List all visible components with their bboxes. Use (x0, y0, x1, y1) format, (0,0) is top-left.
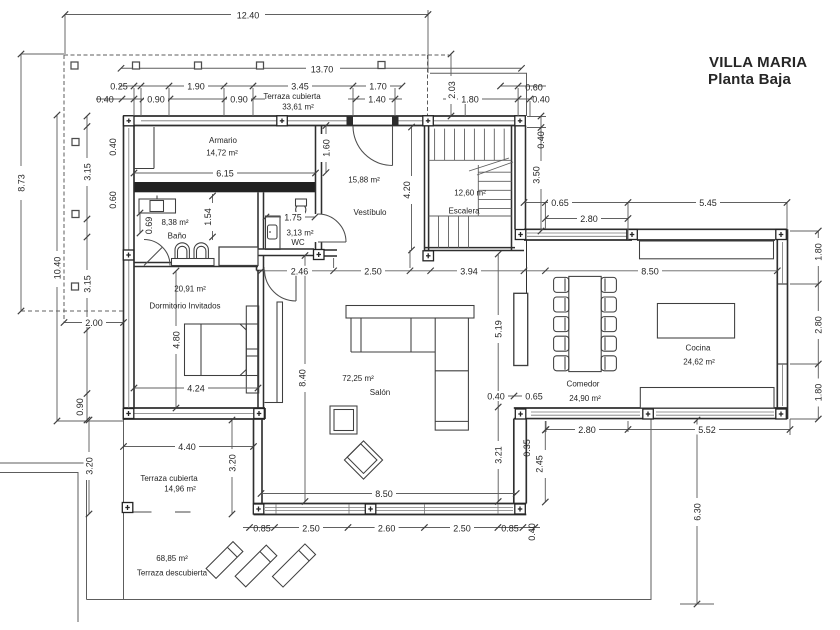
left exterior wall band (123, 116, 125, 420)
dim 5.19/3.21 vertical (497, 254, 499, 502)
salon bottom wall band (254, 503, 527, 505)
bano shower tray (219, 247, 258, 266)
dim text 0.65 stub (522, 391, 546, 402)
pillar squares on left dashed boundary (71, 62, 385, 291)
dim text 2.46 (287, 266, 312, 277)
svg-text:33,61 m²: 33,61 m² (282, 103, 314, 112)
svg-text:15,88 m²: 15,88 m² (348, 176, 380, 185)
svg-text:0.85: 0.85 (253, 524, 271, 534)
dim text 12.40 (231, 9, 265, 21)
dim text 4.24 (184, 383, 208, 394)
svg-text:1.70: 1.70 (369, 82, 387, 92)
sun lounger 1 (206, 542, 243, 579)
dim text 1.70 (366, 81, 390, 92)
dim 0.40-3.50 right of stairs (540, 116, 542, 231)
svg-text:3.21: 3.21 (494, 446, 504, 464)
svg-text:Terraza cubierta: Terraza cubierta (140, 474, 198, 483)
column terraza cubierta (122, 503, 133, 513)
svg-text:1.75: 1.75 (284, 213, 302, 223)
stair treads upper flight (429, 129, 513, 248)
dim 1.75 wc (266, 216, 315, 218)
svg-text:0.65: 0.65 (525, 392, 543, 402)
svg-text:24,62 m²: 24,62 m² (683, 358, 715, 367)
top dim row 2 (96, 98, 265, 100)
column wing top-mid (627, 230, 638, 240)
bano toilet 2 (194, 243, 208, 259)
svg-text:0.90: 0.90 (230, 95, 248, 105)
pillar (257, 62, 264, 69)
dashed roof boundary right of entry (427, 55, 429, 116)
terraza cubierta open edge marks (133, 511, 191, 513)
svg-text:12,60 m²: 12,60 m² (454, 189, 486, 198)
dim text 10.40 (52, 251, 63, 287)
roof edge line with pillars (13.70 line) (121, 67, 522, 69)
dim text 3.15 upper (81, 158, 93, 186)
bano toilet 1 (175, 243, 189, 259)
svg-text:68,85 m²: 68,85 m² (156, 554, 188, 563)
dim 10.40 line (56, 115, 58, 421)
dim 4.80 dorm (175, 271, 177, 408)
dim text 0.90 b (227, 94, 251, 105)
column salon bottom-left (253, 504, 263, 514)
svg-text:VILLA MARIA: VILLA MARIA (709, 54, 807, 71)
svg-text:20,91 m²: 20,91 m² (174, 285, 206, 294)
dim text 2.60 (375, 523, 399, 534)
wing right wall (776, 240, 778, 408)
wall bano/wc divider (257, 192, 259, 249)
comedor wall stub down to salon (513, 419, 515, 504)
svg-text:Planta Baja: Planta Baja (708, 71, 792, 88)
dim text 1.80 top (458, 94, 482, 105)
extension lines top (133, 88, 135, 116)
svg-text:1.90: 1.90 (187, 82, 205, 92)
dim 0.35/2.45 (544, 421, 546, 502)
svg-text:8.40: 8.40 (298, 369, 308, 387)
pillar (133, 62, 140, 69)
dim 0.65 / 5.45 line (524, 202, 787, 204)
svg-text:2.80: 2.80 (580, 214, 598, 224)
svg-text:8.73: 8.73 (17, 174, 27, 192)
svg-text:3.15: 3.15 (83, 275, 93, 293)
stair landing line (429, 159, 512, 161)
dim text 6.15 (213, 168, 237, 179)
long dim line y=270.8 (2.46/2.50/3.94/8.50) (259, 270, 777, 272)
dim text 8.50 wing (638, 266, 662, 277)
stair lower flight treads (429, 215, 479, 217)
wc toilet (296, 199, 307, 214)
dim text 4.80 (171, 326, 182, 354)
dim row bottom salon 0.85/2.50/2.60/2.50/0.85/0.40 (243, 527, 540, 529)
dim 2.00 line (64, 322, 124, 324)
svg-text:8,38 m²: 8,38 m² (161, 218, 188, 227)
dim text 3.15 lower (81, 270, 93, 298)
svg-text:14,96 m²: 14,96 m² (164, 485, 196, 494)
svg-text:13.70: 13.70 (311, 65, 334, 75)
dim 6.30 (696, 420, 698, 604)
wing bottom wall window mid-lines (531, 411, 640, 413)
dim 0.69 bano (139, 213, 141, 233)
dim 12.40 line (65, 14, 428, 16)
dim text 1.60 (321, 134, 332, 162)
svg-text:5.52: 5.52 (698, 425, 716, 435)
dim text 2.45 (535, 450, 548, 478)
dormitorio bottom wall band (124, 407, 266, 409)
wall stub left of dormitorio door (256, 249, 258, 271)
dim text 3.21 (493, 441, 504, 469)
dim 2.80 line (545, 218, 628, 220)
svg-text:0.85: 0.85 (501, 524, 519, 534)
terraza descubierta bottom edge (87, 419, 652, 600)
dim text 2.00 (82, 317, 106, 328)
svg-text:Terraza cubierta: Terraza cubierta (263, 92, 321, 101)
dim text 4.40 (175, 442, 199, 453)
dim 1.54 bano (212, 194, 214, 240)
dim 6.15 armario (134, 172, 316, 174)
svg-text:0.35: 0.35 (522, 439, 532, 457)
svg-text:0.40: 0.40 (536, 131, 546, 149)
sun lounger 2 (235, 545, 277, 587)
entry door jambs (347, 116, 354, 126)
dim text 2.50 vestibule (361, 266, 385, 277)
svg-text:WC: WC (291, 238, 305, 247)
svg-text:5.19: 5.19 (494, 320, 504, 338)
column cocina bottom-left (643, 409, 654, 419)
svg-text:10.40: 10.40 (53, 257, 63, 280)
svg-text:0.65: 0.65 (551, 198, 569, 208)
dim text 3.50 (531, 161, 542, 189)
pillar (378, 62, 385, 69)
dim text 1.75 (281, 212, 305, 223)
site boundary inner line bottom-left (0, 463, 87, 600)
stair room right wall (511, 126, 513, 251)
dashed plot boundary left (63, 55, 65, 322)
stair room left wall (424, 126, 426, 251)
dining chairs left (554, 277, 569, 370)
dim 4.20 stairs (411, 127, 413, 250)
dim 8.50 salon (261, 493, 516, 495)
dim text 6.30 (692, 498, 703, 526)
dim text 13.70 (306, 63, 340, 75)
column top wall 4 (515, 116, 526, 126)
svg-text:2.50: 2.50 (364, 266, 382, 276)
pillar (72, 211, 79, 218)
bano door arc (144, 240, 170, 266)
dormitorio right wall (257, 271, 259, 409)
dim text 1.80 right upper (813, 238, 824, 266)
dim text 2.80 wing bottom (575, 425, 599, 436)
armario closet partition (134, 127, 154, 169)
dim 2.80/5.52 bottom of wing (546, 429, 790, 431)
wc bottom wall band (258, 248, 314, 250)
dim text 0.40 stub (484, 391, 508, 402)
dim 3.20 terraza left (88, 420, 90, 514)
window mid-lines dorm bottom wall (134, 413, 254, 415)
extension lines near vestibule opening (409, 250, 411, 268)
svg-text:2.80: 2.80 (814, 316, 824, 334)
dim text 5.45 (696, 198, 720, 209)
left window dims line (86, 116, 88, 420)
svg-text:4.24: 4.24 (187, 384, 205, 394)
pillar (195, 62, 202, 69)
svg-text:2.50: 2.50 (453, 524, 471, 534)
top exterior wall band (124, 115, 526, 117)
bookshelf on salon side of dorm wall (265, 302, 283, 403)
dormitorio door arc (265, 270, 297, 302)
dining table (569, 276, 601, 371)
site boundary outer line bottom-left (0, 473, 78, 623)
kitchen bottom counter (640, 388, 774, 409)
wc door arc (318, 214, 346, 242)
stair diagonal break (469, 158, 509, 171)
svg-text:0.40: 0.40 (96, 95, 114, 105)
wall armario/vestibulo (134, 126, 337, 409)
column salon bottom-right (515, 504, 526, 514)
svg-text:0.90: 0.90 (75, 398, 85, 416)
svg-text:1.60: 1.60 (322, 139, 332, 157)
svg-text:Vestíbulo: Vestíbulo (354, 208, 387, 217)
svg-text:2.00: 2.00 (85, 318, 103, 328)
dim text 4.20 (401, 176, 412, 204)
svg-text:24,90 m²: 24,90 m² (569, 394, 601, 403)
vestibule/comedor divider line (526, 240, 528, 293)
armchair (330, 406, 357, 434)
dimension ticks (302, 252, 308, 258)
svg-text:1.54: 1.54 (203, 208, 213, 226)
column dorm bottom-right (254, 409, 264, 419)
dashed plot boundary top (64, 54, 449, 56)
svg-text:2.80: 2.80 (578, 425, 596, 435)
svg-text:2.50: 2.50 (302, 524, 320, 534)
svg-text:0.90: 0.90 (147, 95, 165, 105)
dim text 1.90 (184, 81, 208, 92)
svg-text:5.45: 5.45 (699, 198, 717, 208)
dim text 3.20 left (84, 452, 95, 480)
bano vanity shelf (172, 259, 215, 266)
right wall window cross ticks (777, 284, 787, 364)
svg-text:Salón: Salón (370, 388, 390, 397)
svg-text:0.25: 0.25 (110, 82, 128, 92)
wing bottom wall band (514, 407, 788, 409)
kitchen top counter (640, 241, 774, 259)
dim text 3.20 right (227, 449, 238, 477)
svg-text:3.45: 3.45 (291, 82, 309, 92)
dim text 8.50 salon (372, 489, 396, 500)
dining chairs right (601, 277, 616, 370)
pillar (71, 62, 78, 69)
svg-text:4.20: 4.20 (402, 181, 412, 199)
column top wall 3 (423, 116, 434, 126)
entry door arc (353, 126, 393, 166)
svg-text:0.60: 0.60 (108, 191, 118, 209)
pillar (72, 283, 79, 290)
svg-text:Cocina: Cocina (686, 344, 711, 353)
dim text 1.40 (365, 94, 389, 105)
svg-text:12.40: 12.40 (237, 11, 260, 21)
svg-text:4.40: 4.40 (178, 442, 196, 452)
dormitorio top wall (134, 262, 171, 264)
svg-text:2.60: 2.60 (378, 524, 396, 534)
kitchen island (657, 304, 734, 339)
svg-text:4.80: 4.80 (172, 331, 182, 349)
pillar (72, 139, 79, 146)
dim 1.60 armario (325, 126, 327, 173)
svg-text:1.80: 1.80 (461, 95, 479, 105)
dim 0.40/0.65 near comedor stub (487, 395, 540, 397)
upper-floor outline L over stairs (430, 73, 527, 116)
svg-text:14,72 m²: 14,72 m² (206, 149, 238, 158)
svg-text:0.40: 0.40 (487, 392, 505, 402)
svg-text:3.50: 3.50 (532, 166, 542, 184)
armario dark band wall (135, 182, 316, 192)
dim text 2.50 b (450, 523, 474, 534)
svg-text:0.40: 0.40 (108, 138, 118, 156)
stair winder treads right (477, 165, 479, 216)
dim 8.73 line (20, 54, 22, 311)
dim text 2.03 (446, 76, 457, 104)
dim 0.90 left (86, 394, 88, 421)
column wc corner (314, 250, 325, 260)
svg-text:6.15: 6.15 (216, 169, 234, 179)
stair room bottom wall (425, 247, 516, 249)
column left wall mid (123, 250, 134, 260)
sofa L-shape (346, 306, 474, 431)
column stairs bottom-left (423, 251, 434, 261)
dim text 5.52 (695, 425, 719, 436)
east wall of vestibule section (525, 126, 527, 230)
dim 3.20 terraza right (231, 420, 233, 514)
dim text 1.54 (202, 203, 213, 231)
svg-text:2.45: 2.45 (535, 455, 545, 473)
svg-text:0.40: 0.40 (532, 95, 550, 105)
media wall stub between salon and comedor (514, 293, 528, 365)
salon bottom wall window lines (265, 505, 513, 514)
bano sink counter (139, 196, 176, 214)
top dim row 1 (119, 85, 402, 87)
column wing top-right (776, 230, 787, 240)
dim text 1.80 right lower (813, 379, 824, 407)
column dorm bottom-left (123, 409, 134, 419)
bedside cabinet strip (246, 306, 258, 393)
svg-text:3,13 m²: 3,13 m² (286, 229, 313, 238)
dim text 2.80 wing top (577, 214, 601, 225)
svg-text:Armario: Armario (209, 136, 238, 145)
column salon bottom-mid (365, 504, 376, 514)
column wing top-left (515, 230, 526, 240)
dim text 3.45 (288, 81, 312, 92)
terraza descubierta left edge (123, 420, 125, 600)
svg-text:8.50: 8.50 (641, 266, 659, 276)
dim 8.40 salon vertical (304, 256, 306, 502)
svg-text:Escalera: Escalera (448, 207, 480, 216)
dim 1.80/2.80/1.80 right side (817, 231, 819, 419)
svg-text:1.40: 1.40 (368, 95, 386, 105)
svg-text:Dormitorio Invitados: Dormitorio Invitados (149, 302, 220, 311)
svg-text:6.30: 6.30 (693, 503, 703, 521)
dim text 0.65 wing (548, 198, 572, 209)
svg-text:72,25 m²: 72,25 m² (342, 374, 374, 383)
wc washbasin unit (266, 216, 281, 250)
svg-text:0.69: 0.69 (144, 217, 154, 235)
svg-text:2.46: 2.46 (291, 266, 309, 276)
dim 4.24 dorm (134, 387, 258, 389)
svg-text:0.40: 0.40 (527, 523, 537, 541)
column cocina bottom-right (776, 409, 787, 419)
svg-text:Terraza descubierta: Terraza descubierta (137, 569, 208, 578)
svg-text:3.94: 3.94 (460, 266, 478, 276)
svg-text:1.80: 1.80 (814, 243, 824, 261)
svg-text:Comedor: Comedor (567, 380, 600, 389)
right wall window mid-lines (527, 233, 782, 415)
svg-text:3.20: 3.20 (85, 457, 95, 475)
wing top wall band (524, 228, 788, 230)
dim text 2.80 right (813, 311, 824, 339)
sun lounger 3 (272, 544, 315, 587)
dim text 2.50 a (299, 523, 323, 534)
dim 2.03 vertical (450, 54, 452, 116)
svg-text:0.60: 0.60 (525, 83, 543, 93)
dim text 8.73 (16, 166, 27, 200)
dim text 8.40 (297, 364, 308, 392)
svg-text:1.80: 1.80 (814, 384, 824, 402)
column top wall 1 (124, 116, 135, 126)
chaise rotated (344, 441, 382, 479)
column top wall 2 (277, 116, 288, 126)
dim text 5.19 (493, 315, 504, 343)
dim 4.40 terraza (124, 446, 254, 448)
wing top wall window mid-lines (527, 232, 630, 234)
svg-text:2.03: 2.03 (447, 81, 457, 99)
window mid-lines top wall (129, 121, 515, 414)
bed (185, 324, 247, 376)
salon left terrace wall edge (253, 419, 255, 504)
svg-text:8.50: 8.50 (375, 489, 393, 499)
window mid-lines left wall (128, 128, 130, 250)
svg-text:3.15: 3.15 (83, 163, 93, 181)
dim text 0.90 a (144, 94, 168, 105)
column comedor bottom-left (515, 409, 526, 419)
dim text 3.94 (457, 266, 481, 277)
svg-text:3.20: 3.20 (228, 454, 238, 472)
svg-text:Baño: Baño (168, 232, 187, 241)
